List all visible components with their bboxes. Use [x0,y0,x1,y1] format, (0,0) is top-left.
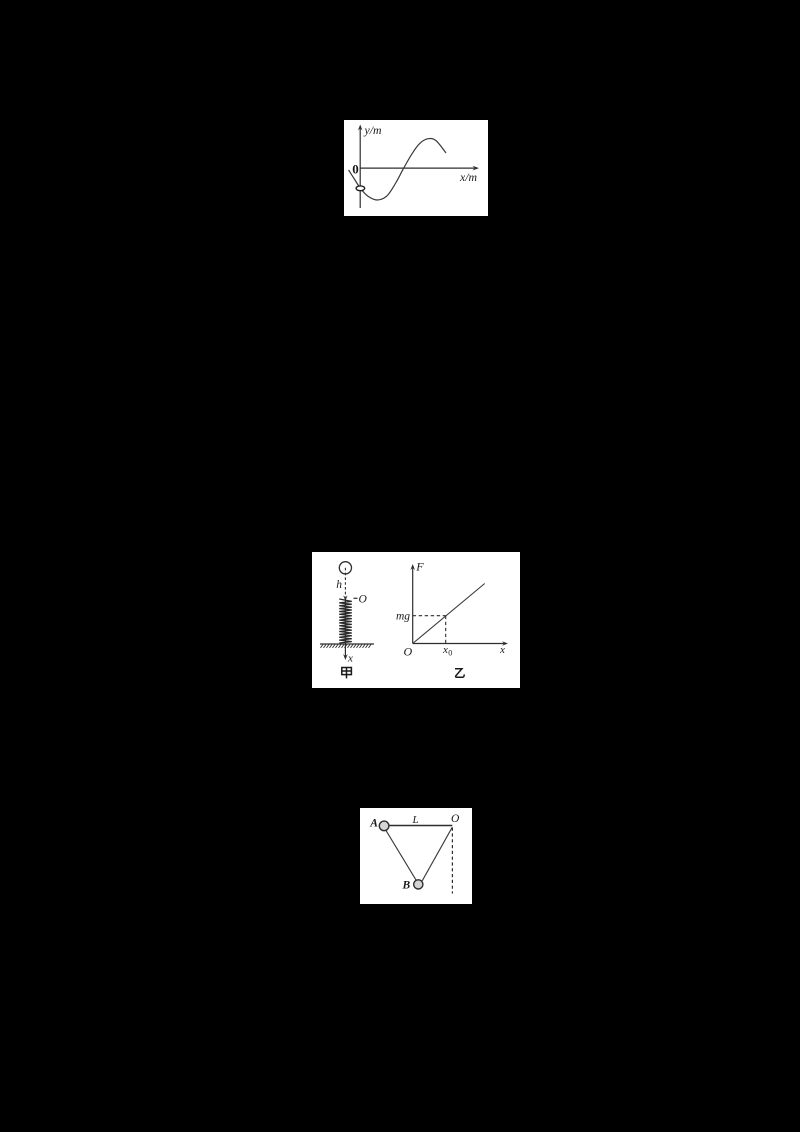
caption jia (CJK drawn) [342,668,352,679]
svg-text:mg: mg [396,611,410,623]
svg-text:h: h [336,579,342,591]
graph x arrowhead [502,641,508,646]
x axis arrowhead [473,166,480,171]
svg-text:L: L [412,814,419,826]
ball above spring [339,562,351,574]
y axis arrowhead [358,125,363,131]
ground line [320,643,374,645]
svg-text:x/m: x/m [459,170,478,184]
ground hatching [321,644,372,647]
figure 2: ball-spring (jia) and F-x graph (yi) [312,552,520,688]
svg-text:B: B [402,880,411,892]
x axis of graph [413,643,505,645]
caption yi (CJK drawn) [455,669,464,678]
particle marker ellipse on wave [356,186,365,191]
dashed vertical through O [451,828,453,894]
dashed drop line h [344,568,346,598]
x axis line through spring down through ground [344,599,346,657]
string A-B [386,830,416,880]
F-x line [413,584,485,644]
string B-O [422,827,452,881]
svg-text:0: 0 [352,162,359,177]
y axis [359,128,361,208]
wave curve [349,138,446,200]
svg-text:x: x [499,644,505,656]
svg-text:x: x [442,644,448,656]
x axis [360,167,475,169]
dashed mg horizontal [413,615,446,617]
F axis arrowhead [410,564,415,570]
dashed x0 vertical [445,616,447,644]
svg-text:y/m: y/m [364,123,383,137]
tick and label -O [354,597,358,599]
down arrowhead of x [343,654,348,660]
ball A [379,821,389,831]
ball B [414,880,423,889]
F-x graph: F axis [412,568,414,644]
rod A-O [386,825,452,827]
figure 1: transverse wave y/m vs x/m graph [344,120,488,216]
svg-text:A: A [369,818,378,830]
svg-text:0: 0 [448,648,452,657]
spring coil [339,599,352,643]
svg-text:O: O [451,813,460,825]
svg-text:x: x [347,653,353,665]
svg-text:F: F [415,560,424,574]
svg-text:O: O [359,594,368,606]
svg-text:O: O [404,645,413,659]
figure 3: two balls A,B hanging from point O [360,808,472,904]
arrowhead at spring top [343,595,347,600]
